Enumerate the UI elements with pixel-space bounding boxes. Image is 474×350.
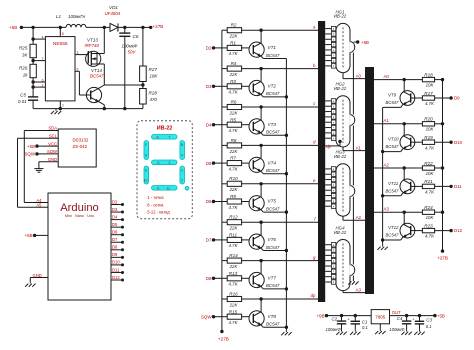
- wire top +5B rail: [21, 26, 66, 28]
- svg-text:VT12: VT12: [388, 225, 399, 230]
- svg-text:4.7K: 4.7K: [228, 51, 238, 56]
- resistor R20 10K: [422, 122, 434, 126]
- resistor R10 22K: [222, 183, 227, 185]
- node +5B filament supply: [354, 41, 358, 43]
- resistor R6 22K: [222, 106, 227, 108]
- svg-text:F: F: [145, 143, 147, 147]
- svg-text:100мкФ: 100мкФ: [122, 44, 138, 49]
- wire emitter rail to ground: [285, 59, 287, 330]
- svg-text:22K: 22K: [229, 72, 239, 77]
- node +5B at Arduino: [35, 234, 48, 236]
- svg-text:BC547: BC547: [266, 53, 280, 58]
- pin 1 HG4: [325, 244, 331, 246]
- pin 3 HG2: [325, 111, 331, 113]
- svg-text:R14: R14: [229, 253, 238, 258]
- svg-text:BC547: BC547: [386, 188, 399, 193]
- svg-text:SDA: SDA: [48, 126, 57, 131]
- svg-text:D4: D4: [112, 214, 118, 219]
- svg-text:VT4: VT4: [268, 160, 277, 165]
- IC Arduino (Mini Nano Uno): [48, 193, 111, 300]
- pin D11 Arduino: [111, 271, 123, 273]
- svg-text:R25: R25: [19, 46, 28, 51]
- svg-text:VT8: VT8: [268, 314, 277, 319]
- resistor R27 18K: [142, 27, 144, 66]
- svg-text:R21: R21: [424, 179, 433, 184]
- node SQW net: [37, 153, 58, 155]
- svg-text:4.7K: 4.7K: [228, 128, 238, 133]
- svg-text:C3: C3: [426, 318, 432, 323]
- svg-text:BC547: BC547: [266, 322, 280, 327]
- wire emitter: [401, 105, 403, 108]
- svg-text:VT5: VT5: [268, 199, 277, 204]
- segment A of IV-22 figure: [152, 135, 178, 140]
- svg-text:C2: C2: [332, 316, 338, 321]
- svg-text:R6: R6: [231, 99, 237, 104]
- svg-text:+5B: +5B: [437, 313, 445, 318]
- svg-text:100мкГн: 100мкГн: [68, 14, 86, 19]
- wire SDA to Arduino A4: [24, 130, 58, 132]
- pin 2 HG1: [325, 33, 331, 35]
- wire feedback junction to VT14 collector: [104, 84, 143, 86]
- pin 4 HG2: [325, 116, 331, 118]
- pin 1 HG3: [325, 168, 331, 170]
- wire segment line b: [242, 68, 318, 70]
- svg-text:D6: D6: [112, 230, 118, 235]
- transistor VT7 BC547: [249, 272, 264, 287]
- svg-text:18K: 18K: [150, 74, 159, 79]
- svg-text:22K: 22K: [229, 302, 239, 307]
- svg-text:4.7K: 4.7K: [228, 243, 238, 248]
- wire filament HG4 to ground: [352, 276, 354, 279]
- svg-text:VT3: VT3: [268, 122, 277, 127]
- svg-text:+: +: [116, 29, 119, 34]
- svg-text:L1: L1: [56, 14, 62, 19]
- resistor R7 4.7K: [214, 162, 228, 164]
- svg-text:R1: R1: [230, 41, 236, 46]
- transistor VT4 BC547: [249, 157, 264, 172]
- node D11 input: [435, 185, 452, 187]
- svg-text:R19: R19: [424, 135, 433, 140]
- resistor R9 4.7K: [214, 201, 228, 203]
- ground (Arduino): [29, 281, 31, 283]
- svg-text:A2: A2: [356, 215, 362, 220]
- resistor R22 10K: [422, 166, 434, 170]
- pin 8 HG4: [325, 281, 331, 283]
- wire pin6: [33, 81, 45, 83]
- svg-text:R7: R7: [230, 156, 236, 161]
- wire segment line d: [242, 144, 318, 146]
- svg-text:7805: 7805: [375, 314, 385, 319]
- svg-text:VT9: VT9: [388, 92, 397, 97]
- resistor R21 4.7K: [422, 184, 434, 188]
- svg-text:10K: 10K: [426, 215, 435, 220]
- pin 1 HG2: [325, 100, 331, 102]
- svg-text:22K: 22K: [229, 34, 239, 39]
- pin 7 HG2: [325, 132, 331, 134]
- svg-text:SQW: SQW: [201, 314, 212, 319]
- diode VD1 UF4004: [110, 23, 118, 31]
- wire +27B rail (driver column): [221, 30, 223, 331]
- segment G of IV-22 figure: [152, 160, 178, 165]
- svg-text:+5B: +5B: [25, 233, 33, 238]
- svg-text:+5B: +5B: [9, 25, 17, 30]
- svg-text:BC547: BC547: [266, 283, 280, 288]
- wire segment line a: [242, 29, 318, 31]
- resistor R12 22K: [222, 221, 227, 223]
- svg-text:R23: R23: [424, 223, 433, 228]
- svg-text:D2: D2: [112, 199, 118, 204]
- wire R25-R26: [32, 58, 34, 65]
- segment dot of IV-22 figure: [185, 186, 189, 190]
- svg-text:5-12 - катод: 5-12 - катод: [147, 209, 170, 214]
- svg-text:OUT: OUT: [392, 310, 401, 315]
- pin D7 Arduino: [111, 241, 123, 243]
- svg-text:DS3132: DS3132: [73, 138, 89, 143]
- svg-text:C1: C1: [362, 319, 368, 324]
- ground (anode drivers): [382, 244, 384, 246]
- svg-text:R15: R15: [229, 309, 238, 314]
- svg-text:D9: D9: [454, 96, 460, 101]
- node +27B (anode drivers): [441, 249, 444, 252]
- wire emitter: [261, 95, 263, 97]
- wire HG2 anode to bus: [342, 147, 344, 151]
- pin 8 HG1: [325, 65, 331, 67]
- svg-text:10: 10: [144, 179, 148, 183]
- svg-text:GND: GND: [48, 157, 57, 162]
- wire R26 down: [32, 78, 34, 97]
- transistor VT1 BC547: [249, 42, 264, 57]
- wire emitter: [401, 149, 403, 152]
- svg-text:UF4004: UF4004: [105, 11, 121, 16]
- transistor VT2 BC547: [249, 80, 264, 95]
- svg-text:8: 8: [62, 32, 64, 36]
- svg-text:BC547: BC547: [266, 130, 280, 135]
- svg-text:7: 7: [169, 135, 171, 139]
- svg-text:22K: 22K: [229, 226, 239, 231]
- ground (driver column): [285, 330, 287, 332]
- svg-text:R18: R18: [424, 72, 433, 77]
- node +5B at DS3132 VCC: [37, 145, 58, 147]
- svg-text:A3: A3: [356, 287, 362, 292]
- svg-text:22K: 22K: [229, 110, 239, 115]
- svg-text:0.1: 0.1: [362, 325, 368, 330]
- svg-text:BC547: BC547: [266, 206, 280, 211]
- svg-text:D7: D7: [112, 237, 118, 242]
- svg-text:100мкФ: 100мкФ: [326, 327, 342, 332]
- capacitor C2 100uF electrolytic: [340, 314, 343, 317]
- pin 5 HG4: [325, 265, 331, 267]
- svg-text:4.7K: 4.7K: [425, 145, 435, 150]
- resistor R26 1k: [30, 64, 36, 77]
- svg-text:+5B: +5B: [27, 144, 35, 149]
- pin D10 Arduino: [111, 264, 123, 266]
- svg-text:4.7K: 4.7K: [228, 320, 238, 325]
- wire filament chain HG2-HG3: [352, 126, 354, 186]
- svg-text:VT11: VT11: [388, 181, 399, 186]
- wire emitter: [261, 56, 263, 58]
- svg-text:+9B: +9B: [317, 313, 325, 318]
- pin D2 Arduino: [111, 204, 123, 206]
- svg-text:ИВ-22: ИВ-22: [334, 154, 347, 159]
- wire segment line dp: [242, 298, 318, 300]
- wire VT13 source to VT14: [103, 64, 105, 85]
- svg-text:A1: A1: [356, 145, 362, 150]
- svg-text:R27: R27: [149, 67, 158, 72]
- svg-text:8 - сетка: 8 - сетка: [147, 202, 164, 207]
- svg-text:+5B: +5B: [361, 40, 369, 45]
- svg-text:R11: R11: [229, 233, 238, 238]
- wire base: [411, 97, 423, 99]
- svg-text:D8: D8: [206, 276, 212, 281]
- svg-text:22K: 22K: [229, 187, 239, 192]
- svg-text:+27B: +27B: [153, 24, 164, 29]
- node +27B (column bottom): [220, 330, 223, 333]
- svg-text:R9: R9: [230, 194, 236, 199]
- svg-text:A1: A1: [384, 118, 390, 123]
- capacitor C3 0.1: [418, 314, 421, 317]
- svg-text:4.7K: 4.7K: [228, 166, 238, 171]
- svg-text:D10: D10: [454, 140, 463, 145]
- svg-text:NE555: NE555: [53, 41, 68, 47]
- wire HG4 anode to bus: [342, 291, 344, 293]
- svg-text:BC547: BC547: [386, 233, 399, 238]
- wire pin4: [33, 38, 45, 40]
- transistor VT8 BC547: [249, 311, 264, 326]
- svg-text:ZS-042: ZS-042: [73, 144, 88, 149]
- node A1 (driver side): [374, 123, 422, 125]
- svg-text:dp: dp: [311, 293, 316, 298]
- wire emitter: [401, 237, 403, 240]
- segment C of IV-22 figure: [180, 166, 185, 184]
- svg-text:R13: R13: [229, 271, 238, 276]
- svg-text:VT13: VT13: [87, 38, 98, 43]
- pin 7 HG1: [325, 60, 331, 62]
- svg-text:D12: D12: [112, 275, 120, 280]
- resistor R16 22K: [222, 298, 227, 300]
- IC 7805 regulator: [371, 310, 389, 324]
- pin 5 HG3: [325, 189, 331, 191]
- pin D12 Arduino: [111, 279, 123, 281]
- svg-text:A0: A0: [384, 74, 390, 79]
- transistor VT10 BC547: [400, 135, 415, 150]
- svg-text:3: 3: [169, 161, 171, 165]
- svg-text:VT7: VT7: [268, 276, 277, 281]
- svg-text:IRF740: IRF740: [85, 43, 100, 48]
- svg-text:D3: D3: [112, 207, 118, 212]
- pin 4 HG3: [325, 184, 331, 186]
- svg-text:10K: 10K: [426, 83, 435, 88]
- svg-text:4.7K: 4.7K: [228, 282, 238, 287]
- pin 4 HG1: [325, 44, 331, 46]
- svg-text:ИВ-22: ИВ-22: [157, 126, 173, 132]
- ground (7805): [379, 324, 381, 329]
- ground (filament): [352, 279, 354, 281]
- svg-text:D5: D5: [206, 161, 212, 166]
- wire VT14 emitter to ground rail: [99, 102, 105, 105]
- svg-text:Mini Nano Uno: Mini Nano Uno: [65, 214, 94, 218]
- pin D4 Arduino: [111, 219, 123, 221]
- resistor R17 4.7K: [422, 96, 434, 100]
- pin 6 HG3: [325, 195, 331, 197]
- wire emitter: [261, 171, 263, 173]
- svg-text:C4: C4: [397, 316, 403, 321]
- svg-text:A5: A5: [36, 203, 42, 208]
- wire base: [411, 230, 423, 232]
- resistor R19 4.7K: [422, 140, 434, 144]
- svg-text:4.7K: 4.7K: [425, 101, 435, 106]
- svg-text:D6: D6: [206, 199, 212, 204]
- capacitor C5 0.01: [28, 96, 38, 98]
- segment D of IV-22 figure: [152, 186, 178, 191]
- svg-text:dp: dp: [326, 144, 331, 149]
- svg-text:R24: R24: [424, 205, 433, 210]
- wire pin1 to ground rail: [59, 101, 61, 109]
- wire pin2: [33, 86, 45, 88]
- wire SCL to Arduino A5: [18, 137, 59, 139]
- svg-text:22K: 22K: [229, 264, 239, 269]
- svg-text:D9: D9: [112, 252, 118, 257]
- svg-text:R12: R12: [229, 215, 238, 220]
- bus anode lines (thick bar): [365, 67, 374, 294]
- svg-text:BC547: BC547: [266, 245, 280, 250]
- pin 8 HG2: [325, 137, 331, 139]
- svg-text:D4: D4: [206, 122, 212, 127]
- wire segment line c: [242, 106, 318, 108]
- svg-text:VT6: VT6: [268, 237, 277, 242]
- resistor R3 4.7K: [214, 85, 228, 87]
- pin 4 HG4: [325, 260, 331, 262]
- svg-text:D7: D7: [206, 238, 212, 243]
- resistor R23 4.7K: [422, 228, 434, 232]
- svg-text:R2: R2: [231, 23, 237, 28]
- resistor R18 10K: [422, 77, 434, 81]
- resistor R14 22K: [222, 260, 227, 262]
- node A3 (driver side): [374, 211, 422, 213]
- svg-text:D11: D11: [112, 267, 120, 272]
- pin 3 HG4: [325, 254, 331, 256]
- IC DS3132 ZS-042 RTC module: [58, 129, 96, 167]
- wire emitter: [401, 193, 403, 196]
- svg-text:R22: R22: [424, 161, 433, 166]
- svg-text:2: 2: [181, 179, 183, 183]
- svg-text:R5: R5: [230, 117, 236, 122]
- resistor R5 4.7K: [214, 124, 228, 126]
- wire PSU input: [327, 315, 372, 317]
- svg-text:50V: 50V: [128, 50, 137, 55]
- svg-text:BC547: BC547: [386, 100, 399, 105]
- svg-text:VT2: VT2: [268, 84, 277, 89]
- capacitor C1 0.1: [354, 314, 357, 317]
- segment B of IV-22 figure: [180, 141, 185, 160]
- svg-text:VT10: VT10: [388, 137, 399, 142]
- IC U1 NE555: [45, 37, 75, 101]
- svg-text:A0: A0: [356, 73, 362, 78]
- pin 5 HG1: [325, 49, 331, 51]
- pin 6 HG2: [325, 127, 331, 129]
- wire pin5 to VT14 base: [75, 70, 79, 72]
- pin 3 HG3: [325, 179, 331, 181]
- transistor VT6 BC547: [249, 234, 264, 249]
- svg-text:Arduino: Arduino: [60, 202, 99, 214]
- pin 5 HG2: [325, 121, 331, 123]
- svg-text:+27B: +27B: [437, 256, 448, 261]
- svg-text:R8: R8: [231, 138, 237, 143]
- svg-text:G: G: [157, 161, 160, 165]
- svg-text:SQW: SQW: [47, 149, 57, 154]
- capacitor C6 100uF 50V: [124, 27, 126, 33]
- pin D8 Arduino: [111, 249, 123, 251]
- svg-text:22K: 22K: [229, 149, 239, 154]
- wire GND DS3132: [39, 161, 58, 163]
- wire HG1 anode to bus: [342, 73, 344, 79]
- wire VT14 collector: [98, 85, 104, 88]
- svg-text:0.01: 0.01: [18, 99, 27, 104]
- wire emitter: [261, 133, 263, 135]
- transistor VT5 BC547: [249, 196, 264, 211]
- pin 3 HG1: [325, 38, 331, 40]
- svg-text:1: 1: [62, 103, 64, 107]
- pin D5 Arduino: [111, 226, 123, 228]
- wire segment line e: [242, 183, 318, 185]
- svg-text:470: 470: [150, 97, 158, 102]
- svg-text:R3: R3: [230, 79, 236, 84]
- svg-text:ИВ-22: ИВ-22: [334, 86, 347, 91]
- wire PSU output: [390, 315, 435, 317]
- svg-text:D2: D2: [206, 46, 212, 51]
- svg-text:R16: R16: [229, 291, 238, 296]
- svg-text:R26: R26: [19, 66, 28, 71]
- svg-text:10K: 10K: [426, 127, 435, 132]
- svg-text:D3: D3: [206, 84, 212, 89]
- wire base: [411, 185, 423, 187]
- wire VT13 drain: [103, 27, 105, 53]
- wire bottom ground rail: [33, 108, 143, 110]
- svg-text:C6: C6: [133, 34, 139, 39]
- figure IV-22 display pinout (dashed box): [137, 121, 192, 219]
- wire emitter: [261, 248, 263, 250]
- svg-text:BC547: BC547: [266, 91, 280, 96]
- svg-text:4: 4: [181, 154, 183, 158]
- pin D9 Arduino: [111, 256, 123, 258]
- svg-text:BC547: BC547: [266, 168, 280, 173]
- svg-text:+27B: +27B: [218, 336, 229, 341]
- svg-text:VT1: VT1: [268, 45, 277, 50]
- pin D3 Arduino: [111, 211, 123, 213]
- wire pin7: [33, 60, 45, 62]
- resistor R1 4.7K: [214, 47, 228, 49]
- transistor VT11 BC547: [400, 179, 415, 194]
- transistor VT9 BC547: [400, 91, 415, 106]
- svg-text:1 - точка: 1 - точка: [147, 195, 164, 200]
- svg-text:C5: C5: [20, 92, 26, 97]
- svg-text:R4: R4: [231, 61, 237, 66]
- wire emitter: [261, 287, 263, 289]
- node +5B output: [433, 314, 436, 317]
- svg-text:4.7K: 4.7K: [228, 90, 238, 95]
- svg-text:10K: 10K: [426, 171, 435, 176]
- wire emitter rail (anode drivers): [382, 107, 384, 244]
- wire +27B rail (anode drivers): [442, 80, 444, 252]
- wire emitter: [261, 325, 263, 327]
- svg-text:SCL: SCL: [49, 134, 58, 139]
- svg-text:D11: D11: [454, 184, 462, 189]
- ground (supply): [55, 109, 57, 111]
- transistor VT14 BC547: [86, 87, 101, 102]
- resistor R4 22K: [222, 68, 227, 70]
- svg-text:4.7K: 4.7K: [425, 190, 435, 195]
- resistor R28 470: [140, 89, 147, 105]
- segment F of IV-22 figure: [144, 141, 149, 160]
